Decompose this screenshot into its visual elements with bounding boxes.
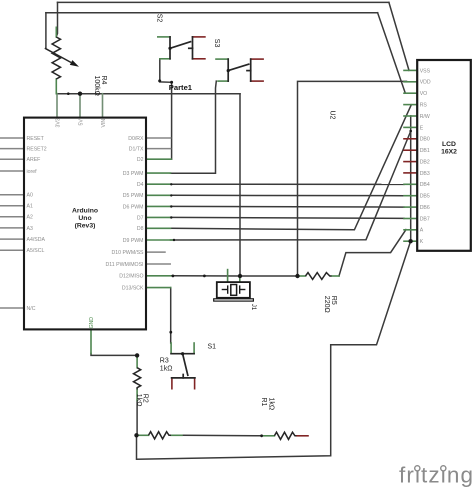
wire RW-E-K vertical xyxy=(410,116,412,241)
svg-text:VO: VO xyxy=(420,91,428,97)
wire D8 to RS xyxy=(171,105,412,230)
J1 crystal symbol xyxy=(222,285,246,296)
wire D5 to DB5 xyxy=(171,194,405,196)
svg-text:Parte1: Parte1 xyxy=(169,83,193,92)
potentiometer R4 top stub xyxy=(55,27,57,37)
LCD pin K stub xyxy=(404,240,417,242)
Arduino pin D2 stub xyxy=(147,158,171,160)
wire xyxy=(58,1,389,3)
svg-text:VIN: VIN xyxy=(101,119,107,128)
wire 5V rail xyxy=(56,93,240,95)
wire D6 to DB6 xyxy=(171,205,405,208)
resistor R2 zigzag xyxy=(134,368,141,390)
pivot S1 xyxy=(181,352,184,355)
svg-text:R/W: R/W xyxy=(420,114,430,120)
resistor R1 zigzag xyxy=(274,432,296,439)
potentiometer R4 zigzag xyxy=(52,37,60,79)
potentiometer R4 bottom stub xyxy=(55,79,57,94)
resistor R3 right stub xyxy=(171,434,182,436)
svg-text:DB0: DB0 xyxy=(420,137,430,143)
svg-text:D4: D4 xyxy=(137,182,144,188)
Arduino pin GND stub xyxy=(90,331,92,354)
Arduino pin 5V stub xyxy=(79,94,81,117)
Arduino pin A2 line xyxy=(0,216,23,218)
J1 piezo body xyxy=(217,282,250,298)
Arduino pin A3 line xyxy=(0,227,23,229)
svg-text:D7: D7 xyxy=(137,215,144,221)
Arduino pin A1 line xyxy=(0,205,23,207)
svg-text:DB1: DB1 xyxy=(420,148,430,154)
wire rail R3 to R1 xyxy=(182,434,262,437)
switch S3 pin 1 stub xyxy=(216,58,228,60)
Arduino pin D11 stub xyxy=(147,263,170,265)
switch S2 pin 2 stub xyxy=(160,58,170,60)
LCD pin R/W stub xyxy=(404,115,417,117)
svg-text:A0: A0 xyxy=(27,193,33,199)
bend dot xyxy=(158,79,161,82)
Arduino pin D7 stub xyxy=(147,216,171,218)
resistor R2 top stub xyxy=(136,357,138,368)
switch S2 pin 1 stub xyxy=(158,36,170,38)
bend dot xyxy=(170,216,172,218)
svg-text:J1: J1 xyxy=(250,304,257,311)
svg-text:DB6: DB6 xyxy=(420,205,430,211)
LCD pin DB6 stub xyxy=(404,206,417,208)
J1 pin 1 xyxy=(227,270,229,282)
resistor R3 left stub xyxy=(137,434,149,436)
svg-text:D6 PWM: D6 PWM xyxy=(123,204,144,210)
svg-text:Arduino: Arduino xyxy=(72,208,98,215)
J1 piezo base xyxy=(214,299,254,301)
Arduino pin D1/TX stub xyxy=(147,148,171,150)
wire xyxy=(46,12,378,14)
LCD pin RS stub xyxy=(404,104,417,106)
wire K to bottom rail xyxy=(137,241,411,459)
svg-text:D13/SCK: D13/SCK xyxy=(122,286,144,292)
wire R5 to A xyxy=(339,230,406,276)
Arduino pin A4/SDA line xyxy=(0,238,23,240)
bend dot xyxy=(260,434,263,437)
svg-text:DB7: DB7 xyxy=(420,216,430,222)
svg-text:U2: U2 xyxy=(329,111,336,120)
LCD pin DB3 stub xyxy=(404,172,417,174)
wire xyxy=(56,2,57,36)
switch S2 body xyxy=(169,37,171,59)
bend dot xyxy=(172,275,175,278)
wire D7 to DB7 xyxy=(171,217,405,218)
Arduino pin D9 stub xyxy=(147,239,174,241)
Arduino pin 3V3 stub xyxy=(56,94,58,117)
LCD pin DB1 stub xyxy=(404,149,417,151)
svg-text:D5 PWM: D5 PWM xyxy=(123,193,144,199)
svg-text:DB2: DB2 xyxy=(420,160,430,166)
svg-text:LCD: LCD xyxy=(442,141,456,148)
resistor R3 zigzag xyxy=(149,432,172,439)
switch S3 pin 2 stub xyxy=(218,80,228,82)
svg-text:D9 PWM: D9 PWM xyxy=(123,238,144,244)
Arduino pin RESET2 line xyxy=(0,148,23,150)
resistor R1 right stub xyxy=(296,435,308,437)
junction rail/R2 xyxy=(134,433,138,437)
wire D9 to RW xyxy=(171,131,411,240)
junction J1/D12 xyxy=(238,274,242,278)
J1 pin 2 xyxy=(239,276,241,282)
Arduino pin ioref line xyxy=(0,170,23,172)
svg-text:N/C: N/C xyxy=(27,306,36,312)
Arduino right pin labels xyxy=(106,136,144,292)
wire xyxy=(45,13,47,49)
wire xyxy=(239,94,241,276)
svg-text:S1: S1 xyxy=(208,344,217,351)
svg-text:A1: A1 xyxy=(27,204,33,210)
bend dot xyxy=(203,275,206,278)
svg-text:fritzing: fritzing xyxy=(399,463,474,488)
switch S3 pin 4 stub xyxy=(251,80,263,82)
svg-text:VDD: VDD xyxy=(420,80,431,86)
svg-text:A3: A3 xyxy=(27,226,33,232)
fritzing watermark xyxy=(399,463,474,488)
svg-text:A: A xyxy=(420,228,424,234)
svg-text:ioref: ioref xyxy=(27,169,38,175)
LCD pin E stub xyxy=(404,126,417,128)
svg-text:DB3: DB3 xyxy=(420,171,430,177)
LCD pin VDD stub xyxy=(404,81,417,83)
wire R2 bottom link xyxy=(136,400,138,435)
svg-text:D8: D8 xyxy=(137,226,144,232)
junction R5/VDD xyxy=(295,274,299,278)
switch S1 pin stub xyxy=(170,343,172,354)
svg-text:S2: S2 xyxy=(155,14,162,23)
pivot S2 xyxy=(168,47,171,50)
LCD pin VSS stub xyxy=(404,69,417,71)
bend dot xyxy=(67,92,70,95)
svg-text:RS: RS xyxy=(420,103,428,109)
Arduino pin D8 stub xyxy=(147,227,171,229)
LCD pin DB0 stub xyxy=(404,138,417,140)
switch S2 pin 4 stub xyxy=(193,58,205,60)
svg-text:AREF: AREF xyxy=(27,157,41,163)
svg-text:1kΩ: 1kΩ xyxy=(267,398,274,411)
resistor R2 bottom stub xyxy=(136,389,138,400)
svg-text:D10 PWM/SS: D10 PWM/SS xyxy=(112,250,145,256)
switch S2 pin 3 stub xyxy=(193,36,205,38)
svg-text:Uno: Uno xyxy=(78,215,91,222)
svg-text:(Rev3): (Rev3) xyxy=(75,223,96,230)
Arduino pin D3 stub xyxy=(147,172,171,174)
Arduino pin D12 stub xyxy=(147,275,171,277)
potentiometer R4 arrow head xyxy=(70,60,79,67)
bend dot xyxy=(170,81,173,84)
junction 5V xyxy=(78,92,82,96)
bend dot xyxy=(173,239,175,241)
svg-text:R3: R3 xyxy=(160,358,169,365)
LCD pin DB5 stub xyxy=(404,195,417,197)
svg-text:D2: D2 xyxy=(137,157,144,163)
svg-text:GND: GND xyxy=(89,317,95,329)
svg-text:RESET2: RESET2 xyxy=(27,147,47,153)
svg-text:DB5: DB5 xyxy=(420,194,430,200)
bend dot xyxy=(170,205,172,207)
junction GND/R2 xyxy=(135,353,139,357)
Arduino Uno U1 body xyxy=(24,118,146,330)
switch S1 pin stub xyxy=(171,378,173,389)
wire S2 to D2 xyxy=(160,59,172,159)
wire D13 to S1 xyxy=(170,288,172,343)
wire D4 to DB4 xyxy=(171,183,405,185)
svg-text:1kΩ: 1kΩ xyxy=(135,394,142,407)
svg-text:100kΩ: 100kΩ xyxy=(93,76,100,96)
svg-text:A4/SDA: A4/SDA xyxy=(27,237,46,243)
svg-text:E: E xyxy=(420,125,424,131)
Arduino pin D5 stub xyxy=(147,194,171,196)
potentiometer R4 wiper arrow xyxy=(45,48,71,62)
switch S1 pin stub xyxy=(193,343,195,354)
svg-text:D0/RX: D0/RX xyxy=(128,136,144,142)
pivot S3 xyxy=(227,69,230,72)
svg-text:K: K xyxy=(420,239,424,245)
wire S3 to D3 xyxy=(171,81,217,173)
svg-text:1kΩ: 1kΩ xyxy=(160,366,173,373)
svg-text:R4: R4 xyxy=(100,76,107,85)
svg-text:R1: R1 xyxy=(260,398,267,407)
svg-text:A2: A2 xyxy=(27,215,33,221)
svg-text:D1/TX: D1/TX xyxy=(129,147,144,153)
Arduino pin D4 stub xyxy=(147,183,171,185)
resistor R5 zigzag xyxy=(306,273,332,280)
resistor R5 right stub xyxy=(332,275,340,277)
Arduino pin A5/SCL line xyxy=(0,249,23,251)
LCD pin DB4 stub xyxy=(404,183,417,185)
Arduino pin VIN stub xyxy=(102,94,104,117)
bend dot xyxy=(409,130,412,133)
Arduino pin D13 stub xyxy=(147,287,171,289)
wire GND xyxy=(91,354,137,356)
wire xyxy=(389,2,409,70)
svg-text:VSS: VSS xyxy=(420,68,431,74)
LCD pin VO stub xyxy=(404,92,417,94)
switch S1 body xyxy=(171,353,194,355)
svg-text:RESET: RESET xyxy=(27,136,45,142)
svg-text:D3 PWM: D3 PWM xyxy=(123,171,144,177)
svg-text:3V3: 3V3 xyxy=(56,118,62,127)
wire D12 to J1 xyxy=(171,275,298,277)
resistor R5 left stub xyxy=(298,275,306,277)
junction K xyxy=(408,239,412,243)
bend dot xyxy=(170,183,172,185)
Arduino pin RESET line xyxy=(0,137,23,139)
LCD 16X2 U2 body xyxy=(417,60,471,251)
Arduino pin D10 stub xyxy=(147,251,165,253)
wire VDD xyxy=(298,81,407,276)
bend dot xyxy=(169,331,172,334)
svg-text:D12/MISO: D12/MISO xyxy=(119,274,143,280)
svg-text:16X2: 16X2 xyxy=(441,148,457,155)
svg-text:DB4: DB4 xyxy=(420,182,430,188)
LCD pin DB2 stub xyxy=(404,161,417,163)
wire xyxy=(378,13,406,94)
svg-text:220Ω: 220Ω xyxy=(323,296,330,313)
switch S3 body xyxy=(227,59,229,81)
Arduino pin A0 line xyxy=(0,194,23,196)
svg-text:S3: S3 xyxy=(213,39,220,48)
LCD pin DB7 stub xyxy=(404,218,417,220)
Arduino pin N/C line xyxy=(0,307,23,309)
Arduino pin D6 stub xyxy=(147,205,171,207)
bend dot xyxy=(170,194,172,196)
svg-text:D11 PWM/MOSI: D11 PWM/MOSI xyxy=(106,262,144,268)
Arduino pin D0/RX stub xyxy=(147,137,171,139)
LCD pin A stub xyxy=(404,229,417,231)
resistor R1 left stub xyxy=(262,435,275,437)
svg-text:A5/SCL: A5/SCL xyxy=(27,248,45,254)
switch S3 pin 3 stub xyxy=(251,58,263,60)
switch S1 pin stub xyxy=(194,378,196,389)
Arduino pin AREF line xyxy=(0,158,23,160)
svg-text:5V: 5V xyxy=(79,119,85,126)
